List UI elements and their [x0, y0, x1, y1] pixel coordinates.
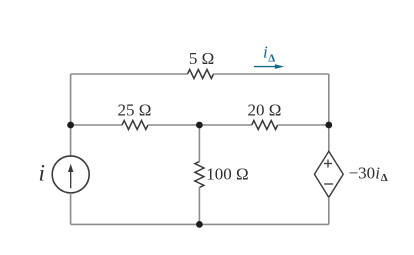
wire right vertical (middle rail to dependent source)	[328, 125, 330, 151]
node junction dot right	[325, 122, 332, 129]
current source arrow	[70, 170, 72, 188]
svg-text:i: i	[39, 160, 45, 185]
resistor R_20ohm zigzag	[252, 121, 278, 130]
wire middle vertical bottom (100 ohm to bottom rail)	[198, 188, 200, 225]
resistor R_25ohm zigzag	[122, 121, 148, 130]
svg-text:25 Ω: 25 Ω	[118, 100, 152, 119]
svg-text:20 Ω: 20 Ω	[248, 100, 282, 119]
wire top rail left segment	[71, 73, 188, 75]
current source i circle	[52, 156, 89, 193]
svg-text:Δ: Δ	[268, 52, 275, 64]
current direction arrow for i_delta	[254, 66, 276, 68]
wire left vertical bottom (current source to bottom rail)	[70, 193, 72, 224]
minus sign inside diamond	[324, 183, 333, 185]
wire middle rail right segment	[278, 124, 329, 126]
wire left vertical (middle rail to current source)	[70, 125, 72, 156]
svg-text:−30i: −30i	[349, 164, 381, 183]
wire right vertical top (top rail to middle rail)	[328, 74, 330, 125]
plus sign inside diamond	[324, 163, 332, 165]
node junction dot middle	[196, 122, 203, 129]
node junction dot bottom	[196, 221, 203, 228]
wire middle rail center segment	[148, 124, 252, 126]
svg-text:5 Ω: 5 Ω	[189, 49, 214, 68]
wire right vertical bottom (dependent source to bottom rail)	[328, 197, 330, 224]
wire left vertical top (top rail to middle rail)	[70, 74, 72, 125]
wire top rail right segment	[214, 73, 329, 75]
wire bottom rail	[71, 223, 329, 225]
node junction dot left	[67, 122, 74, 129]
dependent source diamond	[314, 151, 343, 197]
wire middle rail left segment	[71, 124, 122, 126]
resistor R_5ohm zigzag	[188, 70, 214, 79]
resistor R_100ohm zigzag (vertical)	[195, 162, 204, 188]
wire middle vertical top (middle rail to 100 ohm)	[198, 125, 200, 162]
svg-text:Δ: Δ	[381, 172, 388, 184]
svg-text:100 Ω: 100 Ω	[206, 165, 248, 184]
